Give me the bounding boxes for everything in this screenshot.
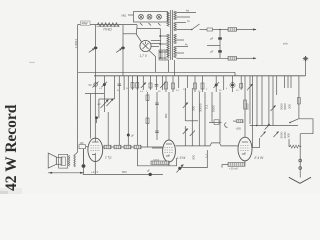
terminal box	[159, 50, 168, 60]
plug label 220 lower	[228, 57, 237, 61]
potentiometer P1	[93, 82, 99, 88]
wire tube4 leads left	[196, 143, 238, 146]
resistor chain box 1	[104, 145, 111, 149]
label uF 128	[131, 135, 134, 138]
label 300 rotated	[191, 106, 195, 111]
svg-text:300: 300	[191, 155, 195, 160]
varistor pair low right	[261, 132, 279, 138]
label uF H8	[147, 170, 150, 173]
hum coil	[74, 154, 76, 167]
varistor on 216	[214, 76, 220, 92]
resistor chain box 3	[124, 145, 131, 149]
label 70 kOhm	[103, 28, 112, 32]
wire V1 right leads	[151, 41, 161, 47]
svg-text:500: 500	[122, 170, 127, 174]
svg-text:MΩ: MΩ	[164, 114, 168, 118]
label C1	[210, 37, 214, 41]
wire hook	[225, 123, 228, 128]
cathode resistor hatched	[151, 161, 169, 164]
node label MW	[81, 21, 91, 26]
label antenna coil	[74, 39, 78, 48]
transformer T1 primary winding upper	[167, 12, 169, 26]
fuse F1	[207, 28, 213, 31]
label V2	[105, 156, 112, 160]
wire drop 192	[191, 88, 193, 146]
wire bus1-bus2 link	[234, 72, 236, 76]
label 500	[122, 170, 127, 174]
tube V4	[238, 137, 252, 161]
dial lamp box	[134, 12, 168, 23]
svg-text:42 W Record: 42 W Record	[3, 104, 20, 191]
dimension line speaker	[48, 172, 84, 174]
capacitor on 156	[155, 76, 159, 90]
wire mains upper	[200, 29, 252, 31]
switch tone	[289, 119, 298, 123]
label tube4 feed resistor	[246, 103, 250, 110]
varistor on 185	[183, 126, 188, 146]
label 3000 rotated right2	[280, 131, 291, 138]
resistor 100 box	[79, 145, 88, 149]
wire cap branch	[207, 30, 220, 59]
rectifier tube V1	[140, 40, 151, 51]
lamp L1	[139, 14, 144, 19]
wire drop 179	[178, 76, 180, 88]
tube V4 electrodes	[240, 142, 249, 154]
wire tube4 top	[244, 76, 246, 137]
wire drop 138	[137, 76, 139, 158]
tuning capacitor gang	[101, 99, 114, 113]
wire lamp feed	[128, 14, 134, 16]
svg-text:+14 V: +14 V	[91, 170, 99, 174]
field coil resistor	[68, 155, 70, 166]
scan shadow bottom-left	[0, 188, 22, 194]
wire drop 220	[219, 92, 221, 143]
svg-text:a+b: a+b	[283, 42, 288, 46]
label 0.1 rotated low	[205, 153, 209, 158]
svg-text:0,1: 0,1	[205, 104, 209, 109]
wire bottom H8	[83, 166, 163, 174]
wire V1 top lead	[123, 29, 142, 43]
wire vertical to trimmer 2	[122, 25, 124, 76]
junction node	[219, 29, 221, 31]
feedback varistor arrow	[177, 165, 184, 173]
transformer T1 secondary winding 4	[174, 46, 176, 58]
right column resistor	[298, 76, 301, 119]
bias resistor hatched	[228, 163, 245, 167]
capacitor on 128	[127, 134, 130, 137]
svg-text:L 5 W: L 5 W	[177, 156, 186, 160]
resistor chain box 4	[134, 145, 141, 149]
tube V3	[163, 140, 176, 162]
varistor right 273	[271, 106, 276, 112]
svg-text:5000: 5000	[212, 105, 216, 112]
ground lead	[299, 134, 302, 178]
svg-text:3000: 3000	[283, 103, 287, 110]
label 5000 rotated	[212, 105, 216, 112]
wire drop 114	[113, 76, 115, 99]
wire transformer to bus	[169, 60, 175, 76]
aerial terminal	[303, 56, 308, 76]
trimmer capacitor 2	[116, 47, 125, 53]
label a+b	[283, 42, 288, 46]
transformer T1 secondary winding 2	[174, 22, 176, 31]
wire drop 108	[107, 112, 109, 147]
svg-text:E 4 W: E 4 W	[255, 156, 265, 160]
svg-text:+265: +265	[236, 128, 242, 131]
wire mid link H5	[250, 125, 298, 127]
svg-text:+10 mV: +10 mV	[229, 167, 238, 171]
label MOhm rotated	[164, 114, 168, 118]
wire bias to left	[222, 165, 228, 168]
transformer T1 core	[171, 10, 173, 60]
mains arrow lower	[251, 57, 257, 59]
wire T1 right taps upper	[177, 13, 197, 30]
wire antenna lead vertical	[77, 25, 79, 73]
tube V2 electrodes	[91, 138, 101, 161]
wire right jog	[299, 119, 313, 134]
wire T1 right taps lower	[177, 40, 197, 58]
wire drop 212	[211, 92, 213, 123]
label P1	[89, 83, 92, 87]
capacitor column 157	[155, 92, 159, 140]
wire tube4 anode right	[252, 138, 259, 148]
svg-text:0,1: 0,1	[205, 153, 209, 158]
svg-text:1-5011: 1-5011	[74, 39, 78, 48]
trimmer capacitor 1	[89, 47, 98, 53]
varistor on 192	[190, 131, 195, 137]
capacitor grid	[95, 116, 98, 123]
label 0.1 rotated	[205, 104, 209, 109]
capacitor on 104	[102, 82, 108, 87]
label MOhm	[122, 13, 127, 17]
stray mark left	[29, 61, 35, 63]
wire drop 185	[184, 88, 186, 121]
resistor on 195	[194, 76, 197, 92]
wire drop 224	[223, 76, 225, 90]
resistor on tube4 feed	[244, 100, 247, 109]
wire V1 bottom lead	[149, 50, 156, 72]
wire drop 169	[168, 92, 170, 141]
switch S1	[191, 24, 200, 30]
wire long drop 99	[99, 99, 115, 118]
varistor on 250	[248, 76, 253, 124]
tube V3 electrodes	[165, 144, 174, 156]
wire drop 205	[204, 92, 206, 146]
wire link a	[185, 120, 198, 122]
svg-text:1,7 V: 1,7 V	[140, 54, 148, 58]
label +10mV	[229, 167, 238, 171]
wire drop 104	[103, 76, 105, 99]
svg-text:µF: µF	[210, 50, 214, 54]
resistor column 147	[146, 92, 149, 147]
svg-text:300: 300	[287, 133, 291, 138]
wire drop 128	[127, 76, 129, 147]
ground arrow	[289, 177, 311, 183]
lamp contact ticks	[140, 23, 161, 26]
varistor on 143	[141, 76, 146, 90]
wire tube3 right	[175, 145, 196, 147]
wire chain tube2-tube3	[103, 146, 163, 148]
lamp L3	[157, 14, 162, 19]
wire right drops from bus2	[253, 76, 292, 148]
resistor on 202	[201, 76, 204, 92]
wire drop 199	[198, 92, 200, 146]
label 300 rotated low	[191, 155, 195, 160]
label cathode resistor	[153, 159, 160, 161]
svg-text:MΩ: MΩ	[122, 13, 127, 17]
wire drop 187	[187, 76, 189, 88]
wire tube3 cathode loop	[138, 158, 177, 166]
wire drop 124	[123, 76, 125, 90]
svg-text:100: 100	[80, 142, 85, 145]
resistor on 132	[131, 76, 134, 90]
transformer T1 secondary winding 3	[174, 34, 176, 44]
label C2	[210, 50, 214, 54]
transformer T1 primary winding lower	[167, 34, 169, 57]
wire link b	[209, 122, 222, 124]
loudspeaker cone	[48, 153, 56, 168]
wire mains lower	[196, 57, 251, 59]
capacitor on H8	[149, 173, 152, 176]
label 3000 rotated right	[280, 103, 292, 110]
plug label 220 upper	[228, 28, 237, 32]
lamp L2	[147, 14, 152, 19]
title 42 W Record	[3, 104, 20, 191]
svg-text:300: 300	[288, 104, 292, 109]
svg-text:MW: MW	[82, 22, 89, 26]
wire tube2 top	[94, 90, 96, 138]
varistor on H5	[265, 124, 270, 130]
svg-text:70 kΩ: 70 kΩ	[103, 28, 112, 32]
label 100	[80, 142, 85, 145]
wire tube2 cathode down	[94, 162, 96, 167]
transformer T1 secondary winding 1	[174, 11, 176, 20]
wire bus1	[78, 71, 235, 73]
capacitor on 232	[230, 76, 235, 92]
resistor on 173	[172, 76, 175, 92]
wire drop 96	[95, 76, 97, 90]
capacitor on 119	[118, 84, 122, 86]
svg-text:2×: 2×	[97, 102, 102, 106]
capacitor C2	[218, 50, 222, 52]
grid stopper box	[233, 120, 243, 123]
mains arrow upper	[251, 28, 257, 30]
wire below lamp box	[137, 25, 160, 58]
svg-text:30000: 30000	[198, 103, 202, 112]
wire bus2	[94, 75, 306, 77]
label +14V	[91, 170, 99, 174]
wire speaker right	[83, 149, 85, 164]
resistor on 241	[240, 76, 243, 90]
wire feedback to V4	[180, 150, 207, 168]
svg-text:10000: 10000	[153, 159, 160, 161]
label tap voltages	[185, 9, 190, 47]
resistor on 166	[165, 76, 168, 92]
svg-text:300: 300	[191, 106, 195, 111]
resistor on 137	[136, 76, 139, 90]
varistor on 162	[160, 76, 165, 90]
label V3	[177, 156, 186, 160]
tone resistor squiggle	[289, 139, 302, 148]
label row tiny	[99, 88, 249, 93]
svg-text:5000: 5000	[246, 103, 250, 110]
svg-text:1 Tμ: 1 Tμ	[105, 156, 112, 160]
wire speaker feed	[75, 72, 77, 154]
wire tube4 cathode	[244, 161, 246, 163]
tube V2	[88, 138, 103, 161]
wire drop 119	[118, 76, 120, 147]
wire long drop 90	[85, 94, 104, 139]
label 265V	[236, 128, 242, 131]
label V4	[255, 156, 265, 160]
output transformer box speaker	[59, 154, 68, 168]
varistor on 185 upper	[183, 103, 188, 109]
capacitor C1	[218, 37, 222, 39]
wire tube3 left	[152, 147, 163, 149]
resistor 70 kOhm	[97, 23, 120, 27]
output transformer box	[214, 120, 219, 125]
label 1.7V	[140, 54, 148, 58]
label 2x	[97, 102, 102, 106]
wire T1 left taps	[160, 35, 167, 58]
wire vertical to trimmer 1	[95, 25, 97, 76]
loudspeaker magnet	[56, 158, 62, 165]
resistor on 150	[149, 76, 152, 90]
wire top horizontal H1	[78, 24, 137, 26]
label 30000 rotated	[198, 103, 202, 112]
resistor chain box 2	[114, 145, 121, 149]
electrolytic capacitor C k	[82, 149, 86, 175]
svg-text:µF: µF	[210, 37, 214, 41]
